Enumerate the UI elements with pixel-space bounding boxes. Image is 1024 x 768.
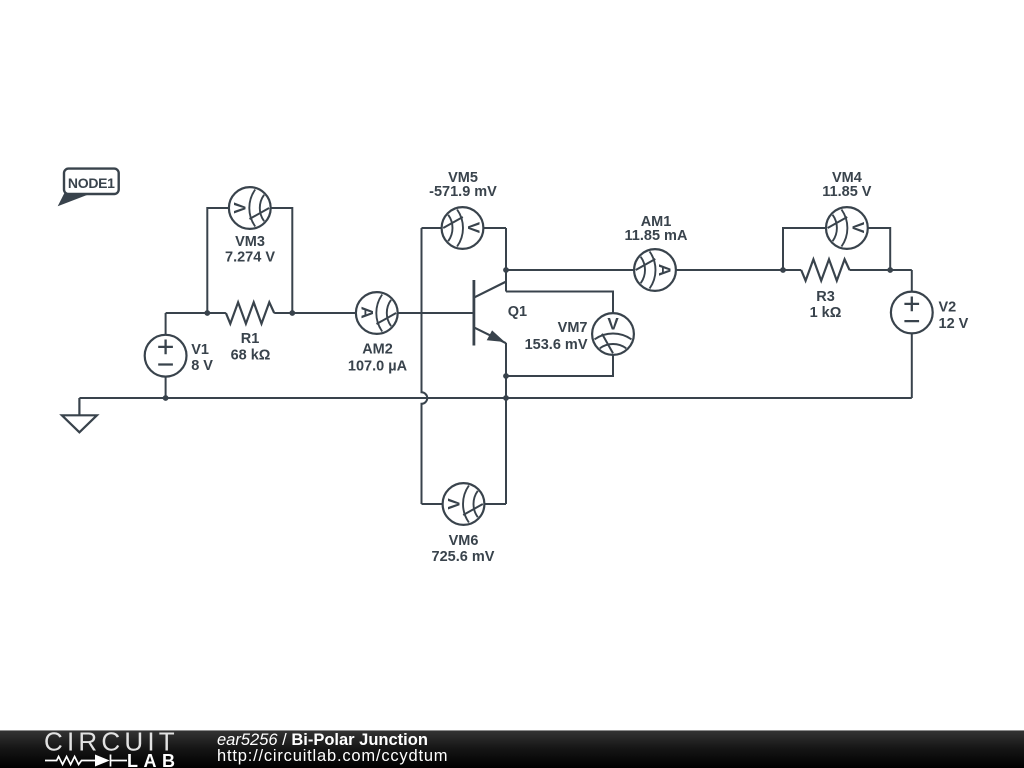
node dot V1 ground: [163, 395, 169, 401]
svg-text:V: V: [607, 315, 619, 334]
wire VM5-VM6 left vertical with hop: [422, 228, 428, 504]
svg-text:A: A: [357, 306, 376, 318]
node dot collector: [503, 267, 509, 273]
node dot emitter-VM7: [503, 373, 509, 379]
wire VM4 loop: [783, 228, 890, 270]
label R3: [810, 289, 842, 321]
svg-text:R1: R1: [241, 331, 260, 347]
svg-text:VM6: VM6: [449, 533, 479, 549]
node dot emitter ground: [503, 395, 509, 401]
svg-text:7.274 V: 7.274 V: [225, 250, 275, 266]
transistor Q1: [474, 280, 506, 346]
ammeter AM2: [356, 292, 398, 334]
label AM1: [625, 214, 688, 244]
svg-text:R3: R3: [816, 289, 835, 305]
svg-text:V1: V1: [191, 342, 209, 358]
label VM6: [432, 533, 495, 565]
ammeter AM1: [634, 249, 676, 291]
label VM7: [525, 320, 588, 353]
footer bar: [0, 730, 1024, 768]
svg-text:68 kΩ: 68 kΩ: [231, 347, 271, 363]
svg-text:1 kΩ: 1 kΩ: [810, 305, 842, 321]
svg-text:725.6 mV: 725.6 mV: [432, 549, 495, 565]
wire VM5 top: [422, 227, 507, 229]
svg-text:V: V: [231, 202, 250, 214]
label VM3: [225, 234, 275, 266]
svg-text:-571.9 mV: -571.9 mV: [429, 184, 497, 200]
svg-text:11.85 mA: 11.85 mA: [625, 228, 688, 244]
svg-text:NODE1: NODE1: [68, 175, 115, 191]
wire VM3 loop: [207, 208, 292, 313]
svg-text:12 V: 12 V: [939, 316, 969, 332]
node NODE1 flag: [58, 169, 119, 207]
ground: [62, 398, 97, 432]
voltmeter VM3: [229, 187, 271, 229]
svg-text:VM7: VM7: [558, 320, 588, 336]
wire main row R1 to Q1 base (under AM2): [274, 312, 474, 314]
wire ground rail: [79, 397, 911, 399]
svg-text:Q1: Q1: [508, 304, 527, 320]
wire V1 branch: [165, 313, 167, 398]
svg-text:V: V: [464, 222, 483, 234]
svg-text:V: V: [848, 222, 867, 234]
svg-text:VM3: VM3: [235, 234, 265, 250]
voltage source V1: [145, 335, 187, 377]
CircuitLab logo: [0, 731, 200, 768]
svg-text:8 V: 8 V: [191, 358, 213, 374]
label V1: [191, 342, 213, 374]
svg-text:11.85 V: 11.85 V: [822, 184, 872, 200]
wire main row V1 to R1: [166, 312, 226, 314]
wire emitter node to VM6: [505, 398, 507, 504]
label AM2: [348, 342, 408, 375]
resistor R1: [226, 302, 274, 323]
wire collector row to R3 (under AM1): [506, 269, 801, 271]
wire VM7 loop: [506, 292, 613, 377]
svg-text:107.0 µA: 107.0 µA: [348, 359, 408, 375]
voltage source V2: [891, 292, 933, 334]
label R1: [231, 331, 271, 363]
svg-text:A: A: [655, 264, 674, 276]
wire VM6 bottom row: [422, 503, 507, 505]
svg-text:AM2: AM2: [362, 342, 393, 358]
voltmeter VM4: [826, 207, 868, 249]
voltmeter VM7: [592, 313, 634, 355]
wire collector vertical: [505, 228, 507, 292]
resistor R3: [801, 259, 849, 280]
label VM5: [429, 170, 497, 200]
svg-text:V: V: [444, 498, 463, 510]
node dot R1 right: [289, 310, 295, 316]
node dot R3 right: [887, 267, 893, 273]
label VM4: [822, 170, 872, 200]
wire emitter vertical: [505, 343, 507, 398]
label V2: [939, 300, 969, 332]
node dot R1 left: [204, 310, 210, 316]
wire V2 branch: [911, 270, 913, 398]
wire R3 right to V2: [850, 269, 912, 271]
node dot R3 left: [780, 267, 786, 273]
voltmeter VM5: [442, 207, 484, 249]
voltmeter VM6: [443, 483, 485, 525]
svg-text:153.6 mV: 153.6 mV: [525, 337, 588, 353]
svg-text:V2: V2: [939, 300, 957, 316]
